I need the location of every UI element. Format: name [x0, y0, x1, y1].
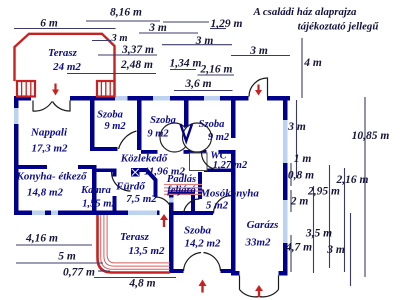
- svg-text:1,55 m2: 1,55 m2: [82, 199, 117, 210]
- svg-text:0,8 m: 0,8 m: [288, 170, 314, 182]
- window bottom wall Furdo: [128, 211, 157, 216]
- dim line 3,6m: [174, 90, 233, 92]
- svg-text:1 m: 1 m: [294, 153, 312, 165]
- wall WC bottom: [204, 169, 236, 173]
- svg-text:14,8 m2: 14,8 m2: [27, 187, 64, 199]
- svg-text:2,16 m: 2,16 m: [200, 64, 233, 76]
- svg-text:4,7 m: 4,7 m: [285, 242, 312, 254]
- wall Furdo vertical right: [154, 179, 158, 197]
- dim line 8,16m / 1,29m: [86, 20, 160, 22]
- svg-text:2,48 m: 2,48 m: [120, 59, 153, 71]
- svg-text:2 m: 2 m: [290, 196, 309, 208]
- dim line 4,7m vertical: [290, 235, 292, 272]
- svg-text:4 m: 4 m: [303, 57, 322, 69]
- dim line 6m: [14, 28, 116, 30]
- door garage leaf right: [278, 276, 280, 290]
- wall terrace/Szoba14 vertical: [169, 190, 174, 273]
- svg-text:tájékoztató jellegű: tájékoztató jellegű: [298, 21, 380, 33]
- svg-text:10,85 m: 10,85 m: [352, 130, 390, 142]
- wall Furdo top right of boiler: [139, 168, 148, 172]
- window bottom wall Konyha 2: [51, 211, 58, 216]
- svg-text:Szoba: Szoba: [97, 110, 123, 121]
- wall Mosokonyha/Szoba14 horizontal: [174, 211, 214, 215]
- svg-text:Terasz: Terasz: [120, 231, 150, 243]
- wall Padlas closet top: [169, 190, 195, 194]
- svg-text:5 m2: 5 m2: [206, 200, 229, 212]
- door arc Nappali french left: [33, 101, 52, 112]
- wall vertical Nappali/Szoba1: [90, 96, 95, 147]
- wall divider Szoba1/Szoba2: [137, 96, 142, 150]
- wall Kamra right upper: [113, 169, 117, 177]
- svg-text:3 m: 3 m: [110, 33, 127, 44]
- dim line 5m: [16, 262, 103, 264]
- dim underline 1,29: [210, 28, 226, 30]
- wall top segment Nappali to window0: [70, 96, 115, 101]
- svg-text:24 m2: 24 m2: [52, 61, 81, 73]
- door arc Furdo: [112, 172, 131, 191]
- wall right middle: [283, 163, 288, 200]
- dim line 0,77m tick: [98, 270, 110, 272]
- wall top segment left of Nappali door: [14, 96, 31, 101]
- wall bottom Furdo segment d: [157, 211, 160, 216]
- arrow terrace24 down: [54, 84, 56, 91]
- dim line 3,5m vertical: [313, 186, 315, 273]
- door arc Nappali french right: [53, 101, 71, 112]
- wall Szoba14 bottom right: [221, 269, 234, 273]
- door arc garage right: [259, 290, 279, 297]
- svg-text:Szoba: Szoba: [184, 225, 211, 237]
- dim line 3m c: [162, 44, 232, 46]
- door leaf circle Szoba3: [183, 123, 212, 152]
- door arc Szoba14 french left: [184, 253, 202, 272]
- wall vertical Konyha/Kamra: [92, 165, 97, 215]
- svg-text:14,2 m2: 14,2 m2: [184, 238, 221, 250]
- svg-text:Nappali: Nappali: [30, 127, 68, 139]
- svg-text:13,5 m2: 13,5 m2: [128, 245, 165, 257]
- door leaf circle Szoba2: [160, 123, 189, 152]
- wall Kamra top: [96, 169, 117, 173]
- wall bottom of Szoba2 left part: [141, 150, 158, 154]
- wall top segment window2 to entry door: [220, 96, 249, 101]
- dim line 3m a: [139, 32, 198, 34]
- wall bottom right of WC door: [219, 150, 236, 154]
- terrace 24m2 outline: [15, 34, 115, 96]
- svg-text:5 m: 5 m: [58, 251, 76, 263]
- wall vertical Szoba3 right / entry: [231, 96, 236, 138]
- svg-text:2,16 m: 2,16 m: [336, 174, 369, 186]
- dim line 1m vertical: [296, 162, 298, 178]
- terrace 13,5 step line 1: [101, 215, 170, 269]
- svg-text:9 m2: 9 m2: [208, 132, 230, 143]
- terrace steps right treads: [101, 81, 110, 97]
- svg-text:Terasz: Terasz: [48, 47, 78, 59]
- svg-text:Garázs: Garázs: [247, 219, 279, 231]
- svg-text:Fürdő: Fürdő: [115, 181, 146, 193]
- svg-text:3,37 m: 3,37 m: [121, 44, 154, 56]
- terrace 13,5 step line 2: [104, 215, 170, 266]
- wall bottom of Szoba3 mid part: [184, 150, 207, 154]
- terrace 13,5 m2 bold edge: [98, 215, 171, 273]
- door arc WC: [202, 153, 219, 170]
- svg-text:4,16 m: 4,16 m: [25, 233, 58, 245]
- wall top segment right of entry door: [267, 96, 290, 101]
- wall bottom of Szoba1: [90, 147, 118, 151]
- arrow Szoba14 up: [201, 285, 203, 293]
- svg-text:A családi ház alaprajza: A családi ház alaprajza: [253, 6, 357, 18]
- window top wall Szoba3: [204, 96, 220, 101]
- svg-text:3 m: 3 m: [195, 35, 214, 47]
- svg-text:3 m: 3 m: [148, 22, 167, 34]
- arrow garage up: [258, 290, 260, 297]
- dim line 4,8m: [94, 277, 176, 279]
- svg-text:17,3 m2: 17,3 m2: [31, 143, 68, 155]
- wall divider Nappali/Konyha right part: [78, 165, 96, 169]
- svg-text:Konyha- étkező: Konyha- étkező: [16, 171, 88, 183]
- wall garage bottom left stub: [231, 271, 240, 276]
- door arc Mosokonyha left: [184, 199, 200, 215]
- svg-text:9 m2: 9 m2: [104, 121, 126, 132]
- svg-text:3 m: 3 m: [249, 45, 268, 57]
- svg-text:feljáró: feljáró: [167, 185, 196, 196]
- window top wall Szoba2: [153, 96, 170, 101]
- door garage leaf left: [239, 276, 241, 290]
- wall bottom Konyha segment a: [14, 211, 32, 216]
- wall left lower: [14, 124, 19, 215]
- dim line 4m vertical: [301, 38, 303, 98]
- wall garage bottom right stub: [279, 271, 288, 276]
- window bottom wall Konyha 1: [32, 211, 45, 216]
- wall top segment between windows: [170, 96, 204, 101]
- svg-text:1,34 m: 1,34 m: [170, 58, 202, 70]
- padlas feljaro red hatch: [164, 185, 202, 195]
- svg-text:9 m2: 9 m2: [147, 129, 169, 140]
- dim line 4,16m: [16, 244, 92, 246]
- wall bottom Konyha-Furdo segment c: [58, 211, 128, 216]
- window right wall garage: [283, 200, 288, 243]
- window right wall entry: [283, 120, 288, 163]
- svg-text:Mosókonyha: Mosókonyha: [199, 188, 259, 200]
- svg-text:1,29 m: 1,29 m: [211, 18, 243, 30]
- svg-text:1,27 m2: 1,27 m2: [213, 160, 248, 171]
- svg-text:8,16 m: 8,16 m: [110, 7, 142, 19]
- terrace 13,5 step line 3: [107, 215, 170, 263]
- dim line 2m vertical: [290, 190, 292, 212]
- wall bottom Konyha segment b: [45, 211, 51, 216]
- dim line 1,34m: [170, 69, 196, 71]
- svg-text:2,95 m: 2,95 m: [307, 186, 340, 198]
- svg-text:Kamra: Kamra: [80, 185, 111, 196]
- door arc Szoba1: [119, 131, 137, 149]
- dim line 3m d: [231, 55, 290, 57]
- wall Mosokonyha left: [198, 172, 202, 199]
- arrow entry down: [257, 85, 259, 91]
- dim line 3m b: [92, 40, 111, 42]
- svg-text:0,77 m: 0,77 m: [63, 267, 95, 279]
- door arc entry: [249, 78, 268, 97]
- door leaves V Szoba2/3: [181, 124, 193, 141]
- window left wall Nappali: [14, 108, 19, 124]
- dim line 3,37m: [98, 54, 157, 56]
- dim line 0,8m vertical: [290, 163, 292, 186]
- svg-text:Szoba: Szoba: [150, 115, 176, 126]
- dim line 2,16m: [198, 74, 235, 76]
- wall divider Szoba2/Szoba3: [184, 96, 189, 127]
- dim line 3m right vertical: [296, 100, 298, 158]
- wall Padlas closet right: [191, 190, 195, 211]
- terrace steps right box: [97, 81, 115, 97]
- dim line 2,95m vertical: [329, 165, 331, 268]
- terrace steps left box: [17, 81, 35, 97]
- dim line 2,16m right vertical: [344, 168, 346, 272]
- wall left upper: [14, 96, 19, 108]
- boiler icon in Furdo: [131, 168, 140, 177]
- door leaf WC: [190, 153, 208, 171]
- svg-text:Szoba: Szoba: [199, 119, 225, 130]
- wall top segment window0 to window1: [128, 96, 154, 101]
- window top wall Szoba1: [115, 96, 128, 101]
- svg-text:3 m: 3 m: [326, 244, 345, 256]
- window terrace wall small: [169, 198, 174, 203]
- svg-text:7,5 m2: 7,5 m2: [126, 193, 157, 205]
- svg-text:Padlás: Padlás: [167, 174, 196, 185]
- svg-text:3,6 m: 3,6 m: [184, 78, 211, 90]
- wall vertical garage left: [231, 150, 236, 276]
- door arc garage left: [240, 290, 260, 297]
- wall Furdo chamfer: [147, 170, 157, 181]
- svg-text:Közlekedő: Közlekedő: [120, 153, 169, 165]
- door arc Szoba14 french right: [204, 253, 221, 272]
- dim line 3m bottom right vertical: [350, 213, 352, 286]
- svg-text:6 m: 6 m: [40, 18, 58, 30]
- wall Szoba14 bottom left: [169, 269, 184, 273]
- arrow terrace13 up: [163, 219, 165, 227]
- wall divider Nappali/Konyha left part: [14, 165, 47, 169]
- wall right top: [283, 96, 288, 120]
- svg-text:3,5 m: 3,5 m: [305, 228, 332, 240]
- wall right bottom: [283, 243, 288, 276]
- dim line 10,85m vertical: [364, 97, 366, 277]
- svg-text:3 m: 3 m: [287, 121, 306, 133]
- wall Kamra right lower: [113, 196, 117, 215]
- svg-text:4,8 m: 4,8 m: [128, 278, 155, 290]
- door arc Mosokonyha: [214, 196, 232, 214]
- terrace steps left treads: [22, 81, 31, 97]
- door arc Furdo to terrace vestibule: [156, 197, 173, 214]
- svg-text:33m2: 33m2: [244, 237, 271, 249]
- dim line 2,48m: [67, 73, 156, 75]
